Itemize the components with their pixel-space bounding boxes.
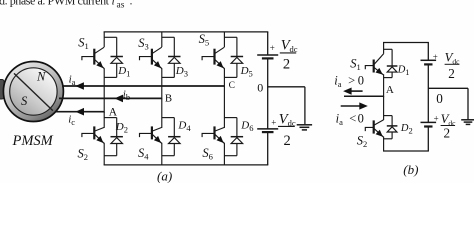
leg wire S6 emitter to bottom rail xyxy=(223,143,225,165)
svg-text:D1: D1 xyxy=(117,65,130,79)
svg-text:Vdc: Vdc xyxy=(281,37,298,54)
IGBT S1 xyxy=(82,47,104,68)
svg-text:S: S xyxy=(21,94,28,108)
svg-text:0: 0 xyxy=(257,81,263,95)
motor shaft stub xyxy=(0,80,4,100)
leg wire node A to S2 (b) xyxy=(383,96,385,120)
D4 anode join wire xyxy=(162,155,175,157)
branch wire to D2 xyxy=(104,117,117,119)
rotor diagonal line xyxy=(14,73,53,110)
D2 anode join wire (b) xyxy=(384,138,393,140)
DC bus upper wire (a) xyxy=(267,32,269,55)
diode D1 (b) xyxy=(387,66,398,72)
svg-text:ib: ib xyxy=(123,89,130,103)
DC bus lower wire (b) xyxy=(427,127,429,152)
svg-text:Vdc: Vdc xyxy=(445,50,461,65)
svg-text:D2: D2 xyxy=(115,121,128,135)
svg-text:S5: S5 xyxy=(199,32,210,48)
leg wire phase node to S4 xyxy=(161,98,163,128)
leg wire S1 emitter to node A (b) xyxy=(383,74,385,97)
D1 anode join wire xyxy=(104,76,117,78)
IGBT S6 xyxy=(202,126,224,143)
D2 anode wire (b) xyxy=(391,132,393,139)
svg-text:D2: D2 xyxy=(400,123,413,136)
D2 anode join wire xyxy=(104,155,117,157)
DC bus middle wire (a) xyxy=(267,58,269,128)
D1 cathode wire (b) xyxy=(391,49,393,66)
D6 cathode wire xyxy=(236,118,238,137)
leg wire S3 emitter to phase node xyxy=(161,68,163,99)
svg-text:S2: S2 xyxy=(357,133,368,149)
svg-text:ia<0: ia<0 xyxy=(336,111,364,127)
svg-text:+: + xyxy=(270,43,275,53)
IGBT S3 xyxy=(140,47,162,68)
diode D2 xyxy=(111,137,123,144)
svg-text:S6: S6 xyxy=(202,146,213,162)
diode D5 xyxy=(231,57,243,64)
capacitor C+ (b) xyxy=(421,60,437,64)
annotation arrow i_a > 0 (points left) xyxy=(349,90,363,92)
IGBT S2 (b) xyxy=(365,120,383,137)
svg-text:B: B xyxy=(165,93,172,105)
svg-text:Vdc: Vdc xyxy=(279,112,296,129)
label +Vdc/2 bottom (a) xyxy=(278,112,296,149)
D5 cathode wire xyxy=(236,37,238,56)
capacitor C- (b) xyxy=(421,122,437,126)
PMSM motor inner circle xyxy=(10,68,57,115)
svg-text:PMSM: PMSM xyxy=(12,133,54,149)
midpoint wire (b) xyxy=(428,87,468,89)
svg-text:S1: S1 xyxy=(350,56,361,72)
D2 anode wire xyxy=(116,144,118,156)
svg-text:+: + xyxy=(434,114,439,124)
IGBT S1 (b) xyxy=(365,54,383,75)
PMSM motor outer circle xyxy=(3,62,63,122)
phase wire to node A (b) xyxy=(344,95,384,97)
branch wire to D2 (b) xyxy=(384,115,393,117)
svg-text:D6: D6 xyxy=(240,119,253,133)
svg-text:D5: D5 xyxy=(240,65,253,79)
leg wire S1 collector (b) xyxy=(383,43,385,54)
svg-text:ia: ia xyxy=(69,73,76,87)
DC bus middle wire (b) xyxy=(427,64,429,122)
leg wire from top rail (S1 collector) xyxy=(103,32,105,47)
diode D1 xyxy=(111,57,123,64)
svg-text:(a): (a) xyxy=(157,168,172,183)
D5 anode wire xyxy=(236,63,238,77)
D2 cathode wire xyxy=(116,118,118,137)
capacitor C_dc+ (a) xyxy=(257,55,278,58)
svg-text:2: 2 xyxy=(444,125,451,140)
phase wire to node A xyxy=(56,111,104,113)
svg-text:2: 2 xyxy=(284,133,291,149)
branch wire to D1 xyxy=(104,36,117,38)
leg wire S5 emitter to phase node xyxy=(223,68,225,87)
svg-text:d. phase a. PWM currentias.: d. phase a. PWM currentias. xyxy=(0,0,133,10)
D1 anode join wire (b) xyxy=(384,77,393,79)
D3 anode wire xyxy=(173,63,175,77)
diode D4 xyxy=(168,137,180,144)
svg-text:S4: S4 xyxy=(138,146,149,162)
D4 cathode wire xyxy=(173,118,175,137)
branch wire to D3 xyxy=(162,36,175,38)
svg-text:+: + xyxy=(271,117,276,127)
current arrow i_c on phase A wire xyxy=(75,108,84,116)
capacitor C_dc- (a) xyxy=(257,129,278,132)
phase wire to node C xyxy=(62,85,224,87)
svg-text:S2: S2 xyxy=(78,147,89,163)
leg wire S4 emitter to bottom rail xyxy=(161,143,163,165)
diode D2 (b) xyxy=(387,126,398,132)
midpoint wire (a) xyxy=(268,86,305,88)
svg-text:N: N xyxy=(36,69,46,83)
D3 anode join wire xyxy=(162,76,175,78)
leg wire S2 emitter to bottom rail (b) xyxy=(383,137,385,151)
D2 cathode wire (b) xyxy=(391,116,393,127)
D5 anode join wire xyxy=(224,76,237,78)
diode D3 xyxy=(168,57,180,64)
svg-text:C: C xyxy=(229,81,235,91)
svg-text:S3: S3 xyxy=(138,36,149,52)
svg-text:2: 2 xyxy=(283,56,290,72)
annotation arrow i_a < 0 (points right) xyxy=(341,105,360,107)
top DC rail (b) xyxy=(383,42,429,44)
svg-text:D3: D3 xyxy=(175,65,188,79)
svg-text:(b): (b) xyxy=(403,162,418,177)
branch wire to D6 xyxy=(224,117,237,119)
D4 anode wire xyxy=(173,144,175,156)
leg wire from top rail (S3 collector) xyxy=(161,32,163,47)
D6 anode wire xyxy=(236,144,238,156)
DC bus upper wire (b) xyxy=(427,43,429,61)
current arrow i_a on phase C wire xyxy=(75,82,84,90)
phase wire to node B xyxy=(59,97,162,99)
svg-text:2: 2 xyxy=(448,66,455,81)
D1 anode wire (b) xyxy=(391,72,393,78)
svg-text:A: A xyxy=(386,84,394,96)
svg-text:ic: ic xyxy=(68,114,75,128)
top DC rail (a) xyxy=(104,31,269,33)
svg-text:A: A xyxy=(109,106,118,118)
label +Vdc/2 top (a) xyxy=(280,37,298,72)
svg-text:D4: D4 xyxy=(177,119,191,133)
branch wire to D1 (b) xyxy=(384,48,393,50)
svg-text:D1: D1 xyxy=(397,64,410,77)
bottom DC rail (b) xyxy=(383,150,429,152)
leg wire phase node to S6 xyxy=(223,86,225,128)
diode D6 xyxy=(231,137,243,144)
bottom DC rail (a) xyxy=(104,164,269,166)
leg wire from top rail (S5 collector) xyxy=(223,32,225,47)
leg wire S1 emitter to phase node xyxy=(103,68,105,113)
svg-text:ia>0: ia>0 xyxy=(334,74,364,90)
current arrow i_b on phase B wire xyxy=(114,95,123,103)
branch wire to D4 xyxy=(162,117,175,119)
DC bus lower wire (a) xyxy=(267,132,269,165)
svg-text:+: + xyxy=(433,52,438,62)
svg-text:0: 0 xyxy=(436,91,443,106)
label Vdc/2 top (b) xyxy=(445,50,461,81)
ground (a) xyxy=(297,125,312,130)
D3 cathode wire xyxy=(173,37,175,56)
IGBT S2 xyxy=(82,126,104,143)
svg-text:S1: S1 xyxy=(78,35,89,51)
midpoint ground drop (a) xyxy=(304,87,306,125)
ground (b) xyxy=(461,120,474,125)
D6 anode join wire xyxy=(224,155,237,157)
IGBT S4 xyxy=(140,126,162,143)
D1 cathode wire xyxy=(116,37,118,56)
D1 anode wire xyxy=(116,63,118,77)
leg wire phase node to S2 xyxy=(103,112,105,128)
branch wire to D5 xyxy=(224,36,237,38)
label Vdc/2 bottom (b) xyxy=(441,112,457,140)
leg wire S2 emitter to bottom rail xyxy=(103,143,105,165)
midpoint ground drop (b) xyxy=(467,88,469,119)
IGBT S5 xyxy=(202,47,224,68)
